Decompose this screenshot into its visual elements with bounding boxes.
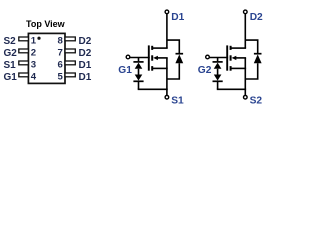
transistor Q2 channel middle segment (230, 55, 232, 60)
svg-text:G1: G1 (118, 65, 132, 76)
pin 8 lead (65, 37, 75, 41)
wire source vertical S1 (166, 58, 168, 96)
svg-text:S2: S2 (4, 36, 17, 47)
wire ESD middle junction (217, 69, 219, 75)
pin 1 lead (19, 37, 29, 41)
wire ESD to source rail (217, 82, 219, 89)
svg-text:6: 6 (58, 59, 63, 70)
svg-text:S2: S2 (250, 96, 263, 107)
wire body stub Q1 (156, 57, 168, 59)
wire drain stub Q1 (153, 47, 168, 49)
svg-text:G1: G1 (4, 72, 18, 83)
body diode cathode bar (Q2) (254, 53, 262, 55)
body diode of Q1 (175, 54, 183, 63)
svg-text:5: 5 (58, 71, 64, 82)
ESD zener Z2b (214, 75, 222, 81)
svg-text:1: 1 (31, 35, 37, 46)
transistor Q1 channel bottom segment (151, 66, 153, 71)
wire drain vertical D1 (166, 14, 168, 48)
transistor Q1 channel top segment (151, 46, 153, 50)
svg-text:8: 8 (58, 35, 64, 46)
node D1 terminal (165, 10, 169, 14)
ESD zener Z2b cathode bar (213, 80, 223, 82)
wire drain to body-diode top (245, 40, 257, 53)
wire ESD middle junction (138, 69, 140, 75)
wire ESD to source rail (138, 82, 140, 89)
svg-text:Top View: Top View (26, 19, 66, 29)
node S1 terminal (165, 95, 169, 99)
transistor Q1 gate bar (148, 45, 150, 70)
ESD zener Z2a cathode bar (213, 61, 223, 63)
svg-text:D1: D1 (79, 60, 92, 71)
wire body-diode anode down (245, 63, 257, 79)
body diode of Q2 (254, 54, 262, 63)
svg-text:D2: D2 (250, 12, 263, 23)
wire source rail S1 (138, 88, 168, 90)
wire drain to body-diode top (167, 40, 179, 53)
package body U1 (28, 33, 65, 83)
wire source vertical S2 (244, 58, 246, 96)
pin 6 lead (65, 61, 75, 65)
body arrow of Q2 (232, 56, 237, 60)
wire body-diode anode down (167, 63, 179, 79)
svg-text:D2: D2 (79, 48, 92, 59)
node G1 terminal (126, 55, 130, 59)
wire gate lead G1 (130, 57, 150, 59)
node S2 terminal (244, 95, 248, 99)
transistor Q1 channel middle segment (151, 55, 153, 60)
transistor Q2 gate bar (226, 45, 228, 70)
wire gate lead G2 (209, 57, 228, 59)
wire gate to ESD zeners (217, 58, 219, 62)
node D2 terminal (244, 10, 248, 14)
svg-text:D2: D2 (79, 36, 92, 47)
transistor Q2 channel bottom segment (230, 66, 232, 71)
wire source stub Q2 (231, 67, 246, 69)
svg-text:G2: G2 (198, 65, 212, 76)
node G2 terminal (206, 55, 210, 59)
ESD zener Z1b cathode bar (133, 80, 143, 82)
ESD zener Z1a cathode bar (133, 61, 143, 63)
body arrow of Q1 (153, 56, 158, 60)
body diode cathode bar (Q1) (176, 53, 184, 55)
pin 1 marker dot (37, 37, 40, 40)
ESD zener Z1b (135, 75, 143, 81)
svg-text:4: 4 (31, 71, 37, 82)
wire gate to ESD zeners (138, 58, 140, 62)
ESD zener Z1a (135, 63, 143, 69)
svg-text:D1: D1 (79, 72, 92, 83)
wire source stub Q1 (153, 67, 168, 69)
transistor Q2 channel top segment (230, 46, 232, 50)
wire drain vertical D2 (244, 14, 246, 48)
svg-text:2: 2 (31, 47, 36, 58)
svg-text:D1: D1 (171, 12, 184, 23)
pin 5 lead (65, 73, 75, 77)
svg-text:S1: S1 (171, 96, 184, 107)
svg-text:7: 7 (58, 47, 63, 58)
wire drain stub Q2 (231, 47, 246, 49)
wire source rail S2 (217, 88, 246, 90)
pin 2 lead (19, 49, 29, 53)
svg-text:S1: S1 (4, 60, 17, 71)
wire body stub Q2 (235, 57, 247, 59)
svg-text:G2: G2 (4, 48, 18, 59)
ESD zener Z2a (214, 63, 222, 69)
svg-text:3: 3 (31, 59, 36, 70)
pin 4 lead (19, 73, 29, 77)
pin 7 lead (65, 49, 75, 53)
pin 3 lead (19, 61, 29, 65)
